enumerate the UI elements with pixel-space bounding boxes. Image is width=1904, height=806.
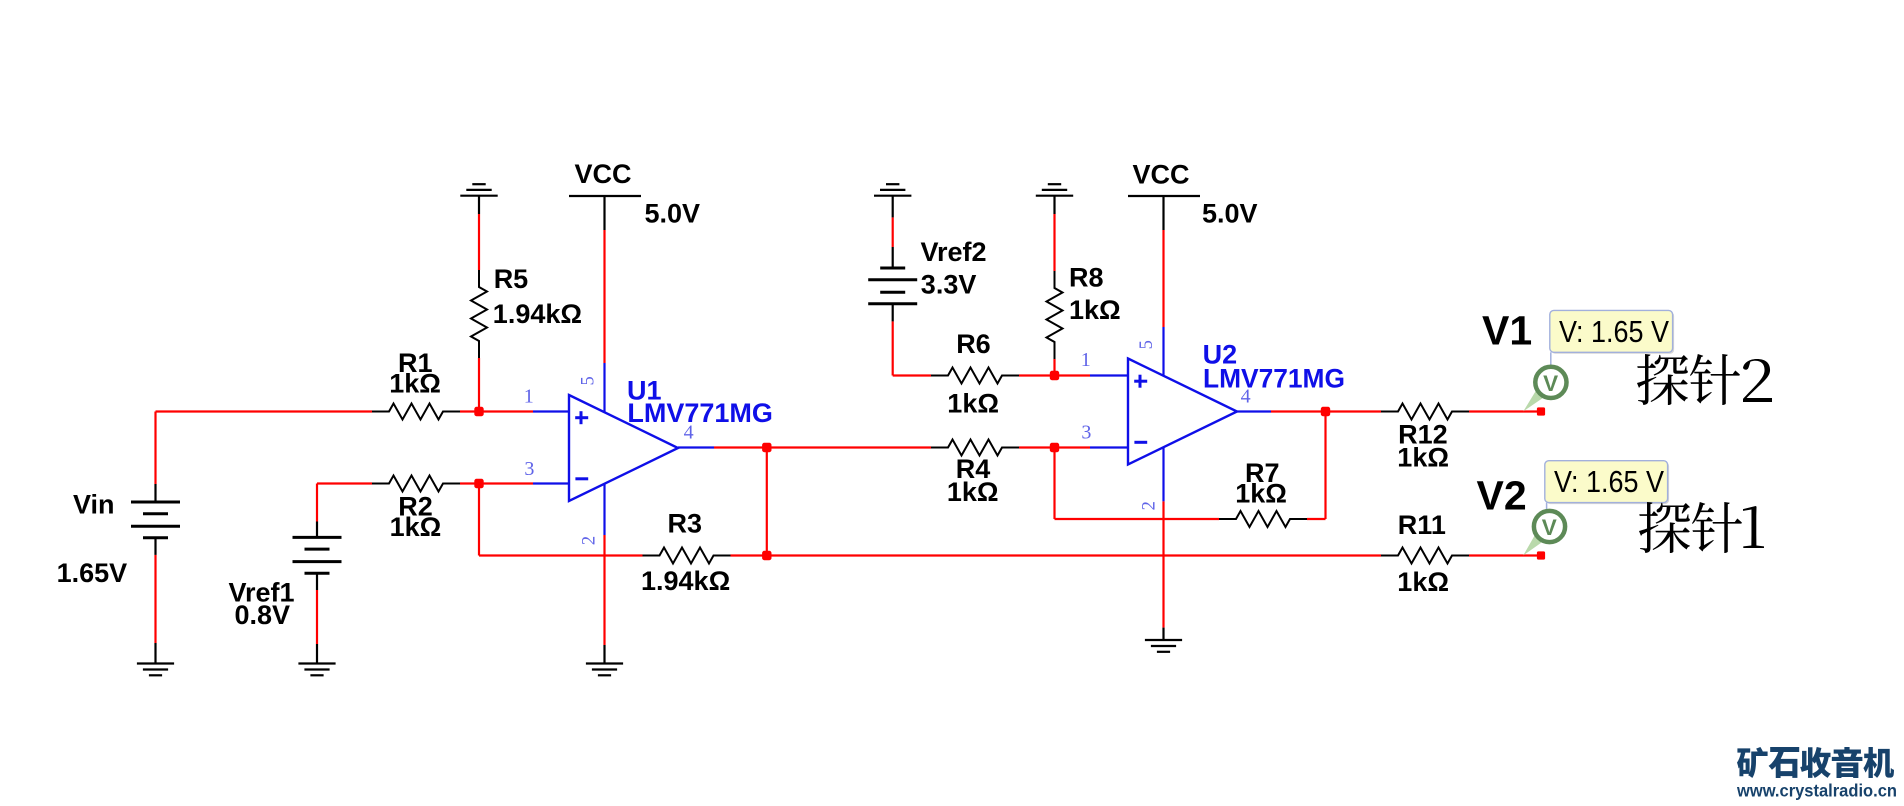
svg-text:3: 3: [524, 458, 534, 480]
junction: [474, 479, 483, 488]
svg-text:1.94kΩ: 1.94kΩ: [493, 299, 582, 329]
resistor R6: [931, 368, 1019, 384]
svg-text:LMV771MG: LMV771MG: [1203, 364, 1345, 394]
battery Vref1: [293, 537, 342, 573]
svg-text:V: V: [1543, 371, 1558, 396]
wire: [603, 645, 605, 664]
wire: [892, 247, 894, 268]
wire: [154, 643, 156, 664]
svg-text:1kΩ: 1kΩ: [947, 477, 999, 507]
svg-text:V: V: [1542, 515, 1557, 540]
wire: [478, 195, 480, 214]
svg-text:1kΩ: 1kΩ: [947, 389, 999, 419]
wire: [603, 230, 605, 363]
wire: [1162, 196, 1164, 230]
wire: [1162, 447, 1164, 501]
svg-text:5: 5: [578, 376, 598, 385]
resistor R8: [1047, 271, 1063, 359]
svg-text:3.3V: 3.3V: [921, 270, 977, 300]
wire: [1090, 446, 1128, 448]
probe V2 circle: [1534, 511, 1565, 542]
svg-text:LMV771MG: LMV771MG: [627, 398, 773, 428]
ground: [298, 664, 335, 676]
svg-text:V: 1.65 V: V: 1.65 V: [1559, 315, 1670, 349]
junction: [1050, 443, 1059, 452]
wire: [154, 412, 156, 485]
probe V1 circle: [1535, 367, 1566, 398]
battery Vin: [131, 502, 180, 538]
svg-text:R6: R6: [956, 329, 991, 359]
wire: [154, 555, 156, 643]
svg-text:R3: R3: [668, 509, 703, 539]
wire: [603, 196, 605, 230]
power VCC rail 2: [1128, 195, 1200, 197]
wire: [603, 484, 605, 535]
wire: [1324, 412, 1326, 520]
wire: [1307, 518, 1326, 520]
wire: [1237, 410, 1272, 412]
svg-text:R5: R5: [494, 264, 529, 294]
wire: [1090, 374, 1128, 376]
battery Vref2: [868, 268, 917, 304]
svg-text:1: 1: [524, 386, 534, 408]
wire: [1162, 230, 1164, 327]
power VCC rail 1: [569, 195, 641, 197]
probe V2 needle: [1523, 532, 1545, 555]
svg-text:V: 1.65 V: V: 1.65 V: [1554, 465, 1665, 499]
node annotation probe 2 (&#25506;&#38024;2): [1637, 354, 1688, 405]
probe V1 leader line: [1550, 352, 1552, 366]
wire: [316, 484, 318, 522]
svg-text:1kΩ: 1kΩ: [389, 369, 441, 399]
wire: [1162, 327, 1164, 376]
svg-text:1: 1: [1081, 349, 1091, 371]
wire: [479, 554, 643, 556]
wire: [892, 321, 894, 375]
resistor R2: [372, 476, 460, 492]
resistor R11: [1381, 548, 1469, 564]
svg-text:2: 2: [579, 536, 599, 545]
wire: [1162, 628, 1164, 640]
resistor R5: [471, 270, 487, 358]
wire: [603, 363, 605, 412]
svg-text:5: 5: [1137, 340, 1157, 349]
probe V2 readout box: [1546, 462, 1669, 504]
wire: [533, 410, 569, 412]
wire: [893, 374, 931, 376]
svg-text:3: 3: [1081, 422, 1091, 444]
svg-text:1kΩ: 1kΩ: [1069, 295, 1121, 325]
svg-text:4: 4: [684, 421, 694, 443]
svg-text:2: 2: [1139, 501, 1159, 510]
wire: [766, 448, 768, 556]
wire: [478, 214, 480, 270]
wire: [892, 217, 894, 247]
svg-text:Vin: Vin: [73, 490, 115, 520]
resistor R1: [372, 404, 460, 420]
resistor R7: [1219, 511, 1307, 527]
wire: [1053, 214, 1055, 271]
wire: [156, 410, 373, 412]
wire: [731, 554, 767, 556]
wire: [460, 410, 533, 412]
ground: [1145, 640, 1182, 652]
wire: [316, 644, 318, 664]
svg-text:R11: R11: [1398, 510, 1446, 540]
svg-text:1kΩ: 1kΩ: [1235, 479, 1287, 509]
svg-text:V2: V2: [1477, 473, 1527, 519]
wire: [1271, 410, 1326, 412]
ground: [874, 184, 911, 196]
wire: [533, 482, 569, 484]
wire: [1469, 554, 1543, 556]
svg-text:5.0V: 5.0V: [645, 199, 701, 229]
svg-text:0.8V: 0.8V: [235, 600, 291, 630]
wire: [316, 522, 318, 538]
wire: [1055, 518, 1220, 520]
svg-text:5.0V: 5.0V: [1202, 199, 1258, 229]
wire: [1019, 374, 1090, 376]
node annotation probe 1 (&#25506;&#38024;1): [1639, 502, 1690, 553]
wire: [317, 482, 372, 484]
probe V1 readout box: [1551, 312, 1674, 354]
junction: [1050, 371, 1059, 380]
resistor R4: [931, 440, 1019, 456]
wire: [714, 446, 931, 448]
ground: [137, 664, 174, 676]
wire: [1326, 410, 1382, 412]
wire: [892, 195, 894, 217]
resistor R12: [1381, 404, 1469, 420]
wire: [460, 482, 533, 484]
wire: [478, 484, 480, 556]
probe V2 leader line: [1546, 503, 1548, 511]
svg-text:Vref2: Vref2: [921, 237, 987, 267]
svg-text:R8: R8: [1069, 262, 1104, 292]
junction: [474, 407, 483, 416]
ground: [1036, 184, 1073, 196]
wire: [1162, 501, 1164, 627]
junction: [762, 443, 771, 452]
svg-text:www.crystalradio.cn: www.crystalradio.cn: [1736, 780, 1897, 800]
junction: [762, 551, 771, 560]
svg-text:1.94kΩ: 1.94kΩ: [641, 566, 730, 596]
wire: [316, 590, 318, 644]
op-amp U2: [1128, 359, 1237, 465]
ground: [460, 184, 497, 196]
svg-text:VCC: VCC: [575, 159, 632, 189]
op-amp U1: [569, 395, 678, 501]
wire: [1019, 446, 1090, 448]
svg-text:1kΩ: 1kΩ: [390, 512, 442, 542]
wire: [1053, 359, 1055, 376]
wire: [1053, 448, 1055, 520]
wire: [892, 304, 894, 321]
svg-text:4: 4: [1241, 386, 1251, 408]
svg-text:VCC: VCC: [1133, 160, 1190, 190]
wire: [678, 446, 714, 448]
svg-text:1kΩ: 1kΩ: [1397, 567, 1449, 597]
wire: [316, 573, 318, 590]
wire: [154, 484, 156, 502]
svg-text:1.65V: 1.65V: [57, 558, 128, 588]
junction probe pin: [1537, 551, 1545, 559]
resistor R3: [643, 548, 731, 564]
wire: [1469, 410, 1543, 412]
wire: [767, 554, 1381, 556]
svg-text:1kΩ: 1kΩ: [1397, 443, 1449, 473]
junction: [1321, 407, 1330, 416]
watermark logo text: [1737, 747, 1768, 778]
wire: [154, 538, 156, 555]
wire: [478, 358, 480, 412]
wire: [1053, 195, 1055, 214]
ground: [586, 664, 623, 676]
probe V1 needle: [1523, 388, 1546, 412]
junction probe pin: [1537, 407, 1545, 415]
svg-text:V1: V1: [1482, 308, 1532, 354]
wire: [603, 535, 605, 645]
